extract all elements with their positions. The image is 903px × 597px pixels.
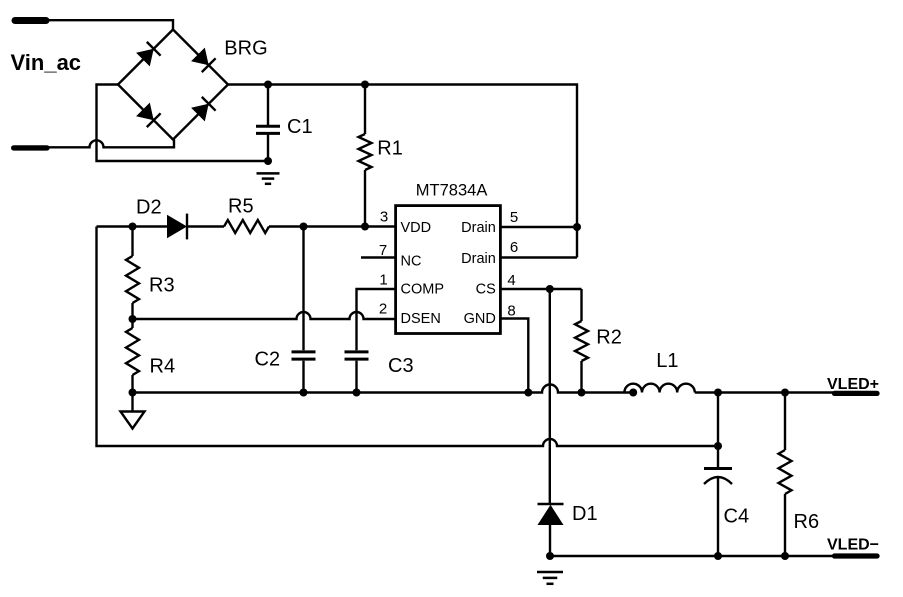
svg-text:NC: NC	[401, 253, 422, 269]
svg-text:R6: R6	[794, 511, 820, 533]
svg-text:VLED−: VLED−	[827, 537, 879, 554]
svg-text:MT7834A: MT7834A	[416, 181, 488, 199]
svg-text:D2: D2	[136, 197, 162, 219]
svg-text:D1: D1	[572, 503, 598, 525]
svg-text:2: 2	[379, 301, 387, 318]
svg-text:C4: C4	[724, 505, 750, 527]
svg-text:3: 3	[380, 209, 388, 226]
svg-text:C2: C2	[255, 349, 281, 371]
svg-text:R5: R5	[228, 196, 254, 218]
svg-text:R3: R3	[149, 275, 175, 297]
svg-text:Vin_ac: Vin_ac	[11, 50, 82, 75]
svg-text:C1: C1	[287, 116, 313, 138]
svg-text:1: 1	[379, 272, 387, 289]
svg-text:L1: L1	[656, 350, 678, 372]
svg-text:4: 4	[507, 272, 515, 289]
svg-text:VDD: VDD	[401, 220, 432, 236]
svg-text:R1: R1	[377, 138, 403, 160]
svg-text:7: 7	[379, 242, 387, 259]
svg-text:8: 8	[507, 303, 515, 320]
svg-text:DSEN: DSEN	[401, 311, 441, 327]
svg-text:C3: C3	[388, 355, 414, 377]
svg-text:Drain: Drain	[461, 220, 496, 236]
svg-text:CS: CS	[476, 282, 496, 298]
svg-text:COMP: COMP	[401, 282, 445, 298]
svg-text:GND: GND	[464, 311, 496, 327]
svg-text:5: 5	[510, 209, 518, 226]
svg-text:6: 6	[510, 239, 518, 256]
svg-text:BRG: BRG	[224, 38, 267, 60]
svg-text:R4: R4	[150, 356, 176, 378]
svg-text:Drain: Drain	[461, 251, 496, 267]
svg-text:VLED+: VLED+	[827, 376, 879, 393]
svg-text:R2: R2	[596, 327, 622, 349]
